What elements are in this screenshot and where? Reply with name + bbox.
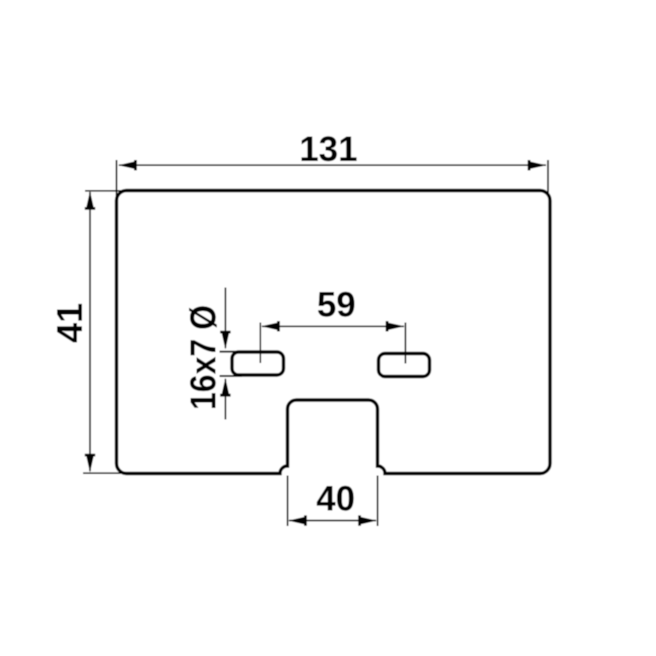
svg-text:59: 59 [317, 286, 356, 325]
svg-text:16x7 Ø: 16x7 Ø [183, 305, 224, 410]
svg-text:131: 131 [299, 130, 357, 169]
svg-text:41: 41 [49, 303, 90, 343]
svg-text:40: 40 [316, 480, 355, 519]
